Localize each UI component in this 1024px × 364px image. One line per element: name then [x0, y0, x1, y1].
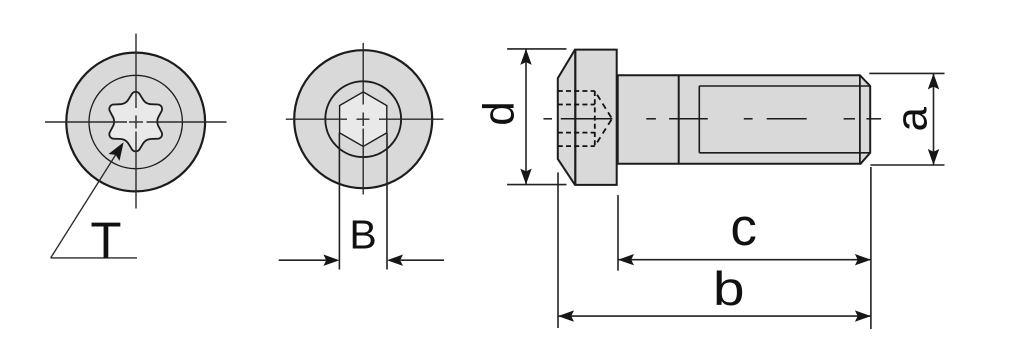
- c extension line left: [617, 195, 619, 271]
- c arrow left (pointing left): [618, 254, 634, 265]
- thread minor diameter top line: [699, 85, 870, 87]
- B dimension line left part: [279, 259, 326, 261]
- c dimension line: [618, 259, 871, 261]
- inner circle (socket counterbore): [325, 81, 401, 157]
- svg-text:c: c: [730, 198, 757, 257]
- centerline horizontal (middle view): [286, 118, 444, 120]
- d extension line bottom: [507, 184, 566, 186]
- B extension line left: [338, 133, 340, 270]
- centerline (right view, dash-dot): [544, 118, 882, 120]
- a dimension line: [933, 73, 935, 165]
- shank / threaded body outline: [618, 75, 871, 164]
- svg-text:d: d: [475, 101, 524, 125]
- leader arrowhead: [109, 139, 130, 161]
- screw head outline: [558, 50, 617, 185]
- B arrow right (pointing left): [387, 255, 403, 266]
- chamfer edge line at tip: [859, 75, 861, 164]
- b arrow right (pointing right): [855, 310, 871, 321]
- a extension line top: [869, 72, 944, 74]
- b extension line left: [557, 172, 559, 328]
- d extension line top: [507, 48, 566, 50]
- centerline vertical (left view): [135, 34, 137, 209]
- d arrow bottom (pointing down): [520, 169, 531, 185]
- inner circle (head chamfer): [89, 75, 182, 168]
- d dimension line: [525, 49, 527, 185]
- a extension line bottom: [870, 164, 944, 166]
- shank edge line (thread runout): [678, 75, 680, 164]
- svg-text:B: B: [349, 212, 376, 258]
- hidden socket cone (dashed): [595, 91, 612, 146]
- B extension line right: [386, 133, 388, 270]
- thread start vertical line: [698, 86, 700, 153]
- outer circle (head outline): [294, 50, 432, 188]
- c arrow right (pointing right): [855, 254, 871, 265]
- hex socket: [340, 92, 387, 147]
- svg-text:b: b: [713, 263, 745, 316]
- a arrow bottom (pointing down): [928, 149, 939, 165]
- svg-text:T: T: [90, 212, 121, 269]
- centerline vertical (middle view): [362, 43, 364, 195]
- a arrow top (pointing up): [928, 73, 939, 89]
- torx star recess: [109, 92, 162, 152]
- centerline horizontal (left view): [45, 121, 227, 123]
- shared extension line right (for c and b): [870, 167, 872, 329]
- B dimension line right part: [401, 259, 445, 261]
- head cone/cylinder edge: [574, 50, 576, 185]
- outer circle (head outline): [66, 53, 205, 192]
- B arrow left (pointing right): [323, 255, 339, 266]
- thread minor diameter bottom line: [699, 152, 870, 154]
- b dimension line: [558, 315, 871, 317]
- b arrow left (pointing left): [558, 310, 574, 321]
- hidden socket lines (dashed): [558, 91, 595, 146]
- leader line to T: [51, 146, 137, 258]
- d arrow top (pointing up): [520, 49, 531, 65]
- svg-text:a: a: [887, 107, 936, 132]
